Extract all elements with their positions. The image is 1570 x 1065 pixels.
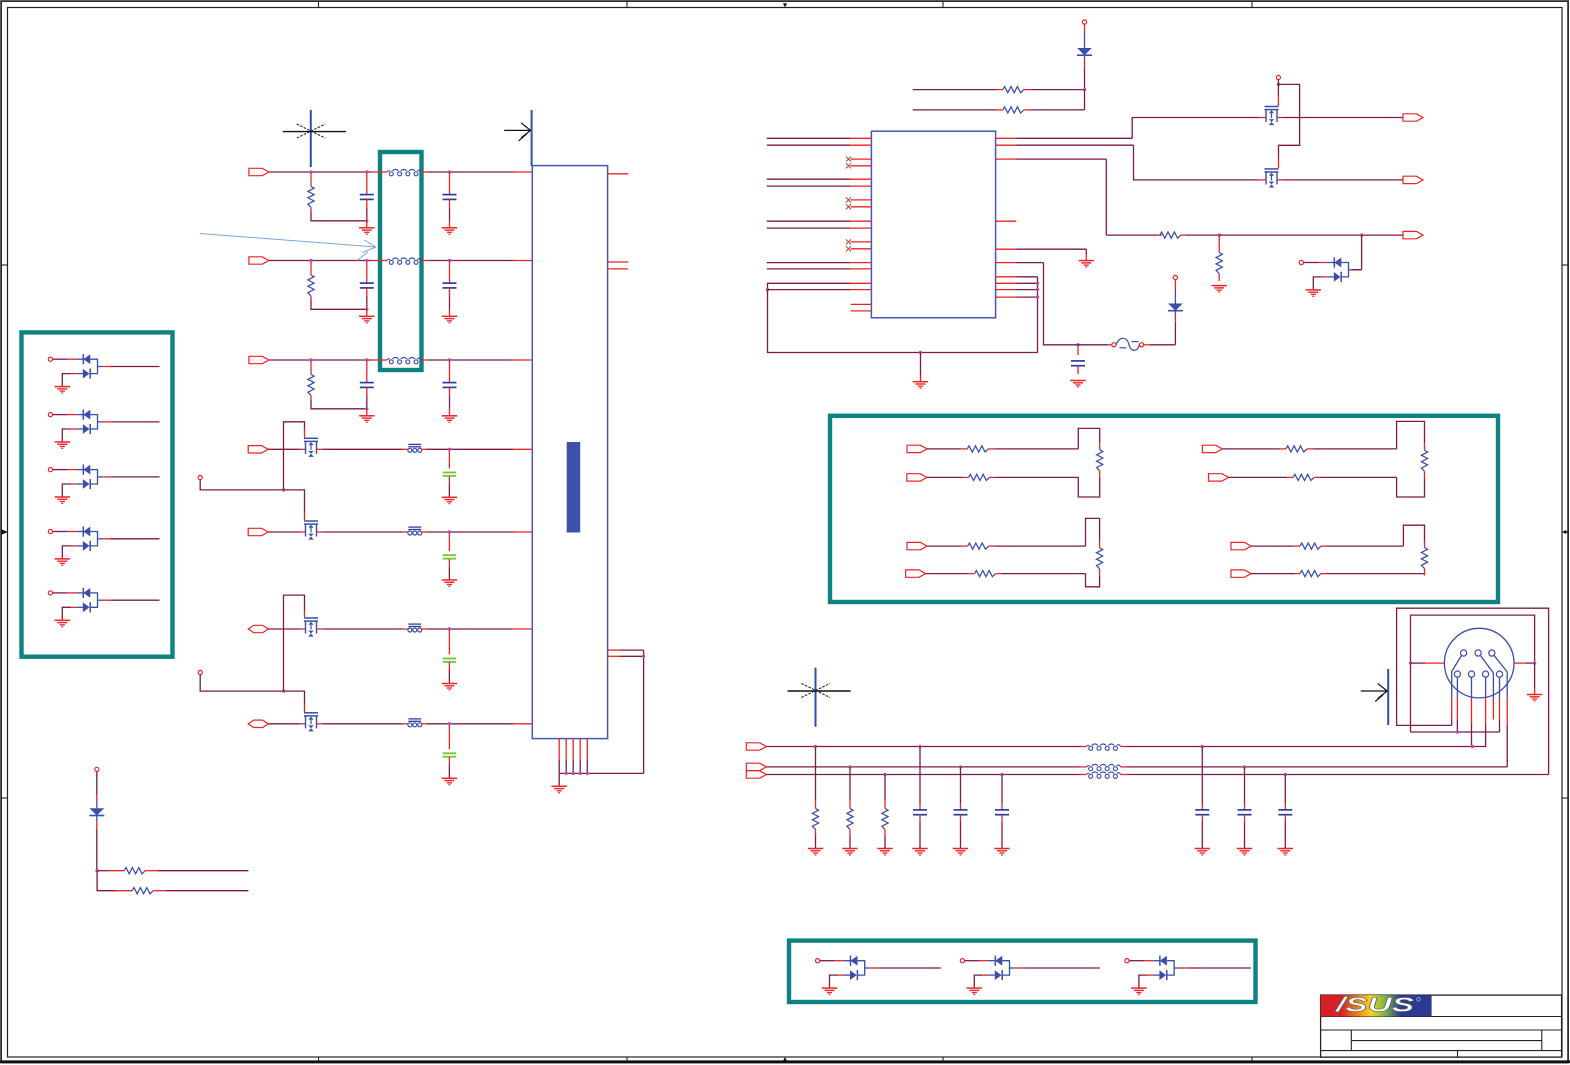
wire [1016,289,1037,291]
pin U1 bottom 1 [558,739,560,774]
wire bus3b [1121,774,1549,776]
no-connect mark [846,239,851,244]
connector J1 pin bot3 [1483,671,1489,677]
wire [1072,344,1112,346]
resistor R14 [124,868,145,874]
transistor Q3 [304,618,318,637]
ferrite bead FB4 [408,719,422,727]
wire [1251,545,1300,547]
wire [421,260,532,262]
pin U2 left [851,220,872,222]
wire [1016,118,1258,139]
wire net stub [767,185,851,187]
node junction [579,772,582,775]
wire net stub [767,262,851,264]
transistor Q5 [1259,107,1283,126]
no-connect mark [846,163,851,168]
node junction [282,488,285,491]
pin U2 left [851,199,872,201]
pin U2 right [996,282,1017,284]
wire [913,89,1003,91]
ground [442,778,457,784]
wire [643,650,645,773]
ferrite bead FB3 [408,624,422,632]
node junction [365,407,368,410]
connector OUT3 [1403,231,1423,238]
wire outer loop [1397,608,1549,774]
no-connect mark [846,204,851,209]
pin U2 right [996,276,1017,278]
wire gate bus 3 [1278,84,1299,168]
wire [268,628,305,630]
node junction [365,308,368,311]
pin U2 left [851,268,872,270]
wire [317,628,409,630]
dual diode D1 [48,354,159,393]
pin U1 bottom 4 [579,739,581,774]
wire bus2 [766,766,1086,768]
resistor RT11 [1421,548,1427,569]
pin U2 left [851,144,872,146]
node junction [1201,745,1204,748]
no-connect mark [846,157,851,162]
wire pin lead [1456,677,1458,732]
wire [268,723,305,725]
resistor RT12 [1300,571,1321,577]
ground [1212,286,1227,292]
pin U1 right 3 [608,268,629,270]
ground [1237,849,1252,855]
pin U1 bottom 3 [572,739,574,774]
inductor L4 [1087,744,1121,750]
wire [1251,573,1300,575]
pin U2 left [851,227,872,229]
inductor L5 [1087,764,1121,770]
dual-diode group box (bottom) [789,941,1256,1002]
wire [268,531,305,533]
resistor R12 [1160,232,1181,238]
wire [421,723,531,725]
node junction [1243,765,1246,768]
node junction [1471,745,1474,748]
connector IN3 [249,356,269,363]
no-connect mark [846,197,851,202]
resistor RT7 [968,543,989,549]
transistor Q4 [304,713,318,732]
capacitor CB3 [995,775,1009,849]
connector J1 pin bot4 [1496,671,1502,677]
pin U2 left nc1 [851,303,872,305]
connector T1B [907,474,927,481]
resistor RT8 [1097,548,1103,569]
pin U2 left [851,158,872,160]
capacitor CE1 [443,450,457,497]
wire [988,428,1099,449]
transformer/coil group box [380,152,422,370]
wire pin lead [1471,677,1473,746]
pin U2 right [996,144,1017,146]
wire [927,545,968,547]
wire net stub [767,144,851,146]
node junction [766,288,769,291]
connector MIN1 [248,446,268,453]
capacitor C3b [443,361,457,409]
wire [421,171,532,173]
wire pin lead [1485,677,1487,741]
connector T3B [906,570,926,577]
pin U2 right [996,296,1017,298]
node junction [1284,773,1287,776]
IC U2 [871,131,995,318]
pin U2 right [996,220,1017,222]
resistor RT2 [1097,450,1103,471]
resistor RB2 [847,767,853,849]
node junction [959,765,962,768]
wire pin lead [1480,655,1493,719]
wire [1277,80,1279,106]
wire [421,531,531,533]
dual diode D21 [960,956,1100,995]
IC U1 label bar [567,442,581,533]
pin U2 right [996,248,1017,250]
transistor Q2 [304,521,318,540]
resistor RT5 [1421,450,1427,471]
pin U1 right 5 [608,655,644,657]
wire [1016,277,1037,353]
resistor RB3 [882,775,888,849]
connector J1 pin top2 [1475,650,1481,656]
pin U1 bottom 5 [586,739,588,774]
wire [927,476,969,478]
pin U1 right 4 [608,649,644,651]
wire [317,531,409,533]
resistor R3 [308,361,367,409]
pin U2 right [996,137,1017,139]
pin U1 right 1 [608,173,629,175]
wire [317,723,409,725]
wire bus1 [766,746,1086,748]
wire [269,260,387,262]
pin U2 right [996,262,1017,264]
capacitor C10 [1070,345,1085,387]
capacitor CE2 [443,533,457,580]
connector T4A [1231,542,1251,549]
wire pin lead [1494,655,1507,761]
dual diode D4 [48,526,159,565]
wire [268,448,305,450]
node junction [1360,233,1363,236]
pin U2 left [851,137,872,139]
capacitor CB6 [1278,775,1292,849]
wire [1354,235,1361,270]
node junction [1083,88,1086,91]
node junction [642,655,645,658]
wire [421,359,532,361]
wire pin lead [1499,677,1501,732]
connector J1 pin bot2 [1468,671,1474,677]
pin U2 left [851,185,872,187]
connector T2B [1209,474,1229,481]
dual-diode group box (left) [22,332,173,656]
ground [953,849,968,855]
node junction [448,358,451,361]
wire [284,691,305,712]
ground [442,309,457,322]
wire [1219,234,1361,236]
connector T1A [907,445,927,452]
wire [1024,89,1085,91]
node junction [1000,773,1003,776]
cursor arrow marker [504,110,531,166]
capacitor CE4 [443,725,457,779]
node junction [282,689,285,692]
ground [842,849,857,855]
wire net stub [767,268,851,270]
node junction [1036,282,1039,285]
capacitor C3a [360,361,374,409]
wire net stub [767,227,851,229]
node junction [95,869,98,872]
gate pin P2 [198,670,202,674]
pin U2 left nc2 [851,310,872,312]
connector J1 pin bot1 [1454,671,1460,677]
connector IN2 [249,257,269,264]
wire [284,422,305,490]
wire [269,171,387,173]
connector J1 pin top3 [1489,650,1495,656]
wire [913,109,1003,111]
wire [421,448,531,450]
ground [994,849,1009,855]
inductor L3 [387,357,421,363]
ground [442,684,457,690]
node junction [309,170,312,173]
dual diode D20 [816,956,941,995]
transistor Q1 [304,438,318,457]
diode D10 [1077,20,1092,90]
connector J1 pin top1 [1461,650,1467,656]
resistor R15 [132,888,153,894]
pin U2 left [851,289,872,291]
ground [1195,849,1210,855]
connector T4B [1231,570,1251,577]
capacitor CE3 [443,630,457,684]
node junction [1036,288,1039,291]
resistor RT10 [1300,543,1321,549]
ground [442,221,457,234]
wire [1106,234,1162,236]
connector T2A [1202,445,1222,452]
wire [1411,662,1445,664]
wire [97,870,124,872]
wire [1314,471,1424,497]
diode D13 [89,767,104,870]
dual diode D2 [48,410,159,449]
wire pin lead [1452,655,1462,725]
resistor RT4 [1286,446,1307,452]
no-ERC star marker [283,110,346,167]
resistor RB1 [812,747,818,849]
capacitor CB4 [1195,747,1209,849]
border frame [0,0,1,1]
capacitor CB1 [913,747,927,849]
wire gate bus 1 [200,480,283,490]
pin U2 left [851,262,872,264]
wire [768,283,851,289]
node junction [1218,233,1221,236]
wire [1283,117,1403,119]
wire [1016,282,1037,284]
dual diode D22 [1125,956,1251,995]
capacitor CB2 [954,767,968,849]
resistor RT1 [967,446,988,452]
ferrite bead FB1 [408,444,422,452]
pin U1 right 2 [608,261,629,263]
resistor R2 [308,262,367,310]
pin U2 right [996,158,1017,160]
wire [145,870,248,872]
pin U2 left [851,206,872,208]
inductor L6 [1087,772,1121,778]
node junction [1409,661,1412,664]
wire [284,490,305,520]
ASUS logo [1321,995,1432,1017]
ground [552,773,567,792]
wire [927,448,967,450]
wire [1321,525,1425,547]
capacitor C2b [443,262,457,310]
annotation arrow [200,234,376,261]
resistor R1 [308,173,367,221]
wire bus2b [1121,760,1508,767]
pin U2 left [851,165,872,167]
capacitor CB5 [1238,767,1252,849]
wire [1222,448,1286,450]
connector BUS2 [746,763,766,770]
node junction [814,745,817,748]
node junction [1277,83,1280,86]
wire [269,359,387,361]
node junction [309,358,312,361]
resistor RT9 [975,571,996,577]
wire [153,890,248,892]
pin U2 left [851,241,872,243]
resistor RT3 [969,474,990,480]
node junction [448,259,451,262]
node junction [883,773,886,776]
connector MIO3 [248,625,268,632]
connector BUS3 [746,771,766,778]
connector OUT2 [1403,176,1423,183]
inductor L2 [387,258,421,264]
ferrite bead FB2 [408,527,422,535]
ground [442,409,457,422]
inductor L1 [387,169,421,175]
node junction [1456,730,1459,733]
wire [1283,179,1403,181]
wire [1016,263,1072,345]
dual diode D3 [48,465,159,504]
ground [1527,663,1542,701]
fuse F1 [1112,338,1144,350]
title block [1321,995,1562,1057]
node junction [848,765,851,768]
node junction [448,170,451,173]
wire gate bus 2 [200,675,283,692]
wire [926,573,975,575]
ground [359,409,374,422]
wire [1514,662,1535,664]
node junction [565,772,568,775]
wire net stub [767,220,851,222]
wire [1181,234,1219,236]
wire bus1b [1121,740,1486,747]
capacitor C1b [443,173,457,221]
no-connect mark [846,246,851,251]
node junction [919,351,922,354]
transistor Q6 [1259,169,1283,188]
connector MIN2 [248,528,268,535]
wire [1229,476,1294,478]
gate pin P1 [198,475,202,479]
pin U2 left [851,282,872,284]
node junction [365,358,368,361]
wire [1321,569,1425,576]
ground [912,849,927,855]
node junction [309,259,312,262]
connector OUT1 [1403,114,1423,121]
IC U1 [532,166,607,739]
svg-text:/SUS: /SUS [1334,995,1415,1017]
gate pin P3 [1276,75,1280,79]
ground [913,353,928,389]
diode D12 [1168,275,1183,344]
capacitor C2a [360,262,374,310]
wire net stub [767,178,851,180]
node junction [1533,661,1536,664]
wire [1016,249,1086,260]
wire [421,628,531,630]
connector IN1 [249,168,269,175]
wire [97,871,132,891]
node junction [365,170,368,173]
ground [1079,261,1094,267]
resistor R10 [1003,87,1024,93]
pin U2 right [996,289,1017,291]
node junction [448,722,451,725]
wire net stub [767,137,851,139]
connector MIO4 [248,720,268,727]
no-ERC star marker [788,668,851,727]
connector J1 shell [1444,628,1514,698]
wire bus3 [766,774,1086,776]
node junction [1036,295,1039,298]
node junction [586,772,589,775]
connector T3A [907,542,927,549]
wire [1016,145,1258,180]
wire inner box [1411,615,1535,732]
node junction [572,772,575,775]
ground [877,849,892,855]
node junction [448,448,451,451]
wire [1016,296,1037,298]
wire gnd bus [768,290,1038,353]
wire [1016,159,1106,235]
node junction [365,259,368,262]
dual diode D11 [1299,257,1361,296]
ground [442,497,457,503]
ground [808,849,823,855]
